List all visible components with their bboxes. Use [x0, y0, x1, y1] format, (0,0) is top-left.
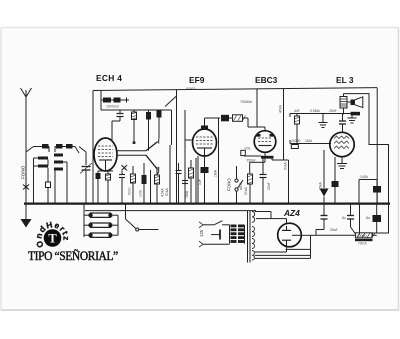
EL3 bias drops	[319, 150, 339, 204]
grid resistor drop	[296, 114, 298, 117]
svg-text:20000: 20000	[291, 139, 301, 143]
EF9 tube	[193, 118, 217, 156]
EL3 cathode ground	[337, 157, 347, 169]
svg-text:1MA: 1MA	[185, 190, 189, 198]
AZ4 wiring	[255, 212, 316, 259]
svg-text:1uF: 1uF	[198, 179, 202, 185]
svg-text:1MA: 1MA	[214, 169, 218, 177]
svg-text:kGn: kGn	[113, 105, 119, 109]
ground drop	[322, 114, 324, 123]
resistor drop	[133, 110, 135, 112]
svg-text:125: 125	[199, 229, 204, 237]
tuning trimmer (variable cap)	[79, 147, 92, 204]
speaker & output transformer	[340, 94, 363, 115]
FONO pickup switch	[227, 166, 244, 204]
svg-text:25nF: 25nF	[329, 109, 337, 113]
svg-text:FONO: FONO	[227, 178, 232, 191]
svg-text:EBC3: EBC3	[255, 75, 278, 85]
EL3 grid line	[290, 109, 360, 144]
svg-text:700 A: 700 A	[358, 242, 367, 246]
ground (antenna)	[21, 204, 32, 228]
svg-text:100: 100	[106, 105, 112, 109]
svg-text:AZ4: AZ4	[283, 208, 300, 218]
svg-text:1MA: 1MA	[305, 139, 313, 143]
ECH4 section frame	[93, 90, 177, 204]
svg-text:140A: 140A	[360, 175, 369, 179]
right rail vertical	[376, 88, 378, 204]
svg-text:EL 3: EL 3	[336, 75, 354, 85]
padder caps on osc line	[103, 98, 129, 103]
EBC3 below network	[241, 89, 298, 204]
antenna	[21, 88, 32, 204]
power transformer	[230, 211, 255, 263]
ECH4 cathode components	[96, 171, 114, 204]
logo ond hertz	[33, 219, 71, 249]
svg-text:10000: 10000	[357, 234, 367, 238]
main ground bus	[24, 203, 390, 205]
svg-text:8u: 8u	[366, 216, 370, 220]
osc drops from y=110 line	[112, 110, 162, 151]
grid X mark	[122, 165, 128, 171]
svg-text:50kA: 50kA	[284, 162, 288, 170]
svg-text:4nF: 4nF	[294, 109, 300, 113]
svg-text:70000m: 70000m	[240, 100, 252, 104]
dark resistor drop	[157, 110, 162, 118]
AZ4 rectifier tube	[278, 223, 302, 247]
mid drops between EF9 and EBC3	[214, 100, 253, 204]
power switch + mains	[199, 221, 230, 248]
cap drop	[342, 114, 344, 121]
ECH4 to bus drops	[119, 163, 165, 204]
svg-text:TIPO “SEÑORIAL”: TIPO “SEÑORIAL”	[28, 249, 118, 264]
svg-text:VOL: VOL	[245, 147, 252, 151]
back-bias box	[359, 175, 381, 204]
svg-text:FONO: FONO	[21, 165, 26, 179]
right resistor + ground	[351, 112, 361, 116]
heater line below bus	[85, 210, 256, 212]
svg-text:25uF: 25uF	[330, 228, 338, 232]
speaker return loop	[344, 94, 389, 236]
svg-text:10m: 10m	[139, 190, 143, 197]
svg-text:50000: 50000	[186, 87, 196, 91]
svg-text:8u: 8u	[342, 216, 346, 220]
svg-text:ECH 4: ECH 4	[96, 73, 122, 83]
EL3 tube	[330, 127, 354, 157]
secondary windings	[252, 212, 255, 261]
svg-text:25nF: 25nF	[267, 182, 271, 190]
EF9 cathode to bus	[196, 156, 209, 204]
field coil resistor 10000	[316, 233, 377, 246]
cap drop	[119, 110, 121, 114]
svg-text:250pF: 250pF	[247, 159, 256, 163]
svg-text:50kA: 50kA	[165, 188, 169, 196]
fono tap X mark	[23, 185, 29, 190]
svg-text:5000: 5000	[128, 187, 132, 195]
EL3 grid wire	[290, 139, 331, 144]
band switch levers (osc section)	[117, 139, 159, 175]
svg-text:4,5kA: 4,5kA	[161, 188, 165, 197]
antenna coil assembly 2	[54, 144, 79, 204]
svg-text:47kA: 47kA	[279, 105, 283, 113]
ECH4 tube	[94, 138, 117, 171]
svg-text:0,5MA: 0,5MA	[310, 109, 321, 113]
EBC3 tube	[248, 127, 276, 152]
svg-text:50kA: 50kA	[244, 187, 248, 195]
svg-text:a500: a500	[239, 182, 243, 190]
top B+ rail	[93, 88, 377, 91]
mid components between IF and EF9	[165, 110, 198, 204]
antenna coil assembly 1	[26, 144, 51, 204]
resistor drop 2	[148, 110, 150, 112]
EF9 grid/plate coupling	[205, 89, 258, 127]
band switch assembly	[84, 204, 159, 238]
svg-text:T: T	[48, 232, 57, 246]
filter caps under bus	[316, 204, 381, 236]
svg-text:EF9: EF9	[189, 75, 205, 85]
